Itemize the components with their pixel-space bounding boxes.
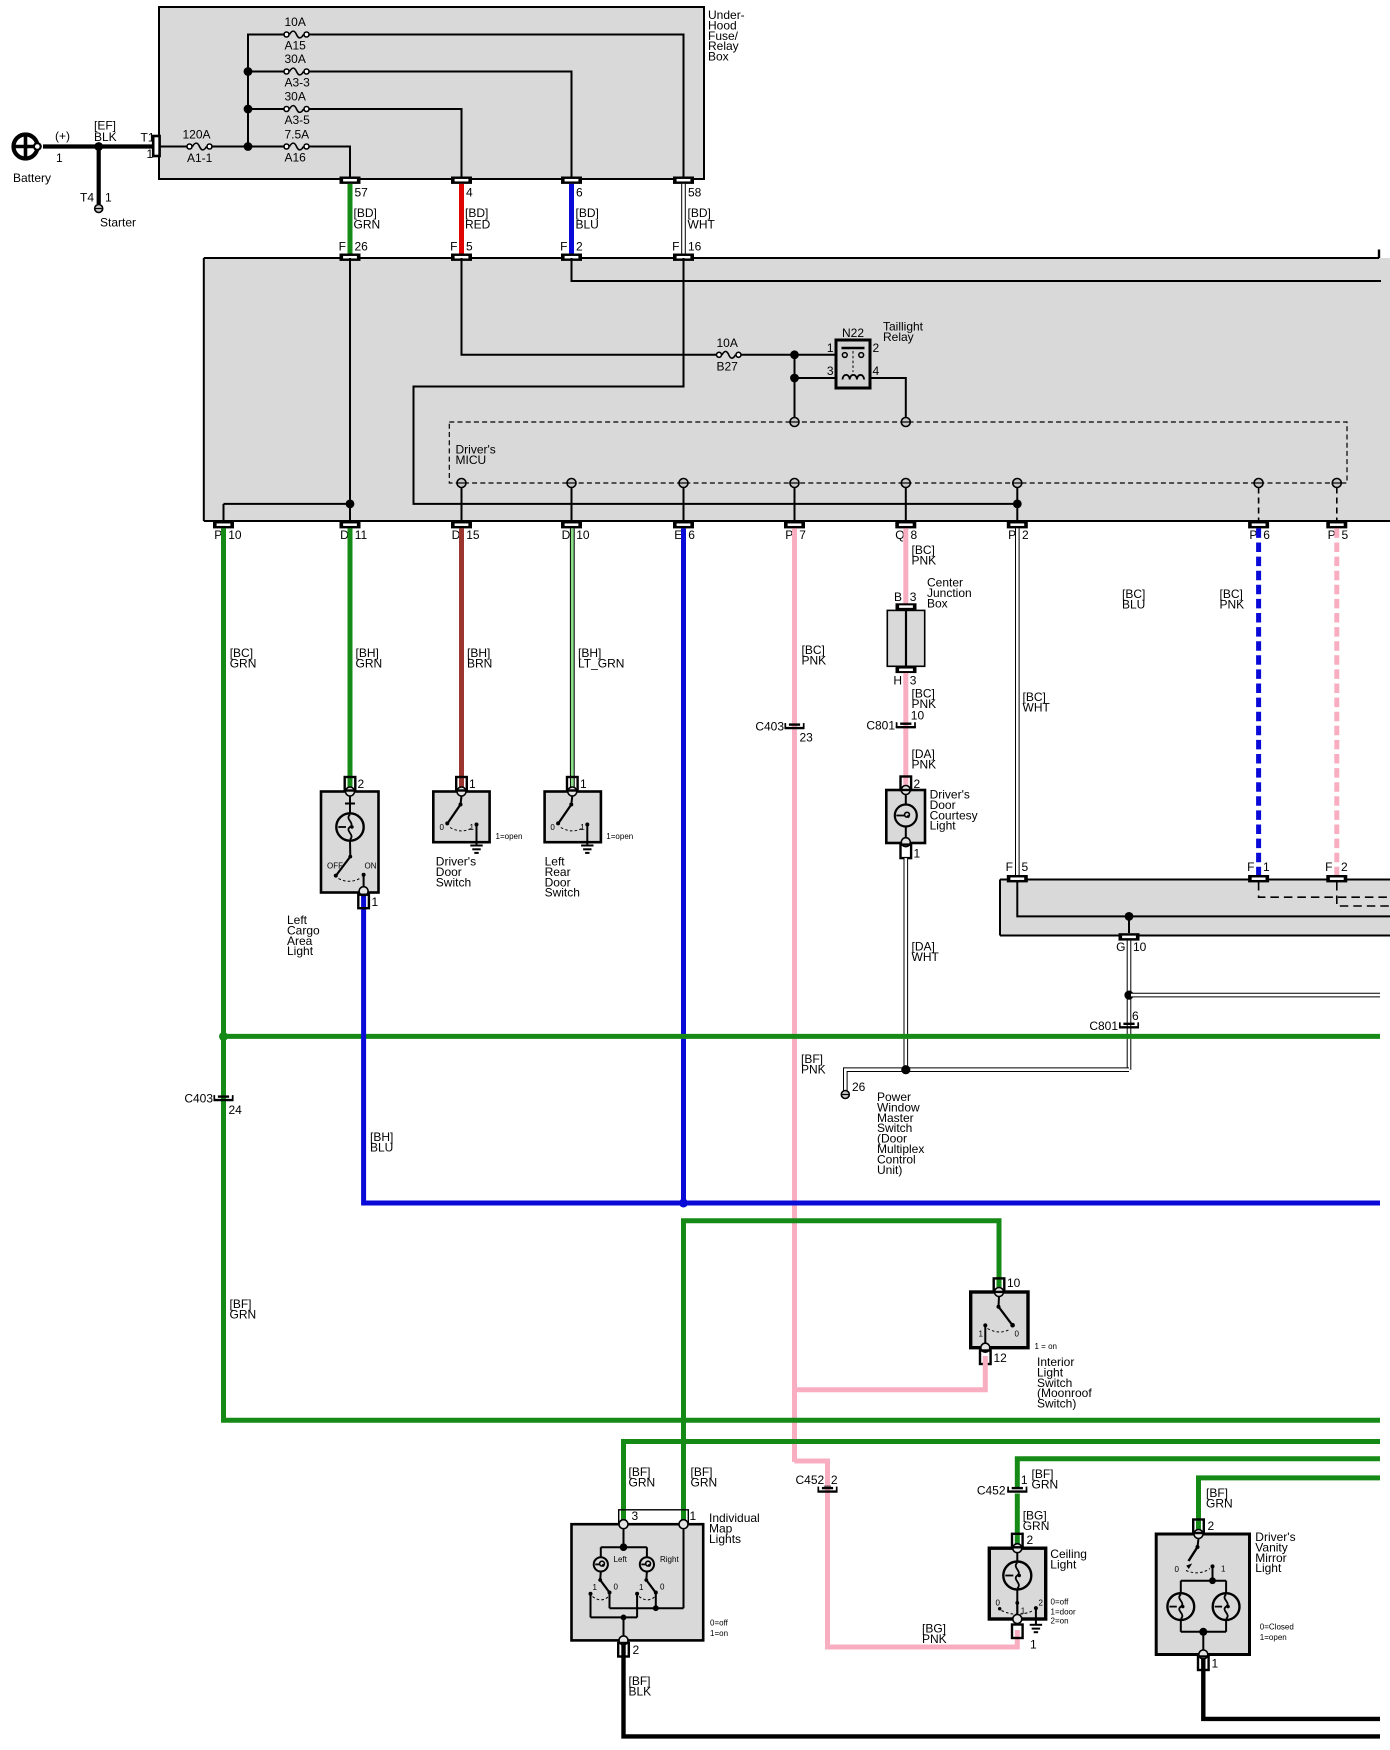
svg-text:D: D xyxy=(562,528,571,542)
wire [BF] GRN down-left xyxy=(224,1036,1381,1420)
wire F1 dashed inside box xyxy=(1259,882,1390,897)
connector pin 6 xyxy=(561,177,583,200)
wire [BH] BRN D15 to driver's door switch xyxy=(462,528,493,788)
label: [BG] PNK xyxy=(922,1622,947,1647)
svg-text:6: 6 xyxy=(688,528,695,542)
svg-text:C452: C452 xyxy=(977,1484,1006,1498)
wire branch to relay pin 3 and MICU xyxy=(795,355,837,418)
svg-text:1: 1 xyxy=(914,847,921,861)
svg-text:12: 12 xyxy=(994,1351,1008,1365)
svg-text:Battery: Battery xyxy=(13,171,51,185)
label: Driver's Door Courtesy Light xyxy=(930,788,978,833)
connector P5 xyxy=(1326,521,1348,542)
switch: left rear door switch xyxy=(545,787,601,846)
svg-text:1=open: 1=open xyxy=(1260,1633,1287,1642)
svg-text:BLK: BLK xyxy=(629,1685,652,1699)
svg-text:1: 1 xyxy=(105,191,112,205)
label: Driver's MICU xyxy=(456,443,496,468)
svg-text:A3-5: A3-5 xyxy=(285,113,311,127)
starter terminal T4 xyxy=(80,191,136,230)
svg-text:1: 1 xyxy=(593,1583,598,1592)
svg-text:(+): (+) xyxy=(55,129,70,143)
switch: driver's door switch xyxy=(433,787,489,846)
svg-text:Light: Light xyxy=(930,819,957,833)
svg-text:BLU: BLU xyxy=(576,218,599,232)
terminal 26 power window master switch xyxy=(841,1080,865,1099)
svg-text:1: 1 xyxy=(827,341,834,355)
svg-text:5: 5 xyxy=(1022,860,1029,874)
wire G10 down xyxy=(1127,941,1132,1070)
connector D10 xyxy=(561,521,590,542)
svg-text:B: B xyxy=(894,590,902,604)
node relay coil branch xyxy=(790,374,799,383)
svg-text:0: 0 xyxy=(660,1583,665,1592)
svg-text:RED: RED xyxy=(465,218,491,232)
wire B27 to relay pin 1 xyxy=(741,354,836,356)
node green bus junction xyxy=(219,1032,228,1041)
svg-text:1 = on: 1 = on xyxy=(1035,1342,1057,1351)
wire [BF] GRN bus to vanity mirror light xyxy=(1199,1478,1381,1531)
svg-text:1: 1 xyxy=(1263,860,1270,874)
svg-text:0: 0 xyxy=(440,823,445,832)
connector P7 xyxy=(784,521,806,542)
driver's under-dash fuse/relay box xyxy=(204,250,1390,522)
connector D15 xyxy=(451,521,480,542)
connector driver's door switch pin 1 xyxy=(456,777,476,791)
label: Individual Map Lights xyxy=(614,1511,760,1638)
wire [BG] GRN C452-1 to ceiling light pin 2 xyxy=(1017,1494,1049,1547)
connector F2 xyxy=(560,240,583,261)
wire [BC] BLU P6 to F1 (dashed) xyxy=(1122,528,1259,875)
wire relay pin 4 to MICU xyxy=(870,378,906,418)
svg-text:0: 0 xyxy=(550,823,555,832)
svg-text:F: F xyxy=(560,240,567,254)
svg-text:Box: Box xyxy=(927,596,948,610)
connector C403 pin 23 xyxy=(755,720,813,745)
svg-text:0: 0 xyxy=(614,1583,619,1592)
MICU terminal (relay coil) xyxy=(901,418,910,427)
svg-text:2: 2 xyxy=(633,1643,640,1657)
node blue bus junction xyxy=(679,1199,688,1208)
svg-text:24: 24 xyxy=(229,1103,243,1117)
svg-text:ON: ON xyxy=(365,862,377,871)
node white-wire branch xyxy=(1124,991,1133,1000)
wire to starter xyxy=(97,147,101,205)
connector cargo light pin 2 xyxy=(345,777,365,791)
fuse 10A A15 xyxy=(284,15,309,53)
node bus-A16 xyxy=(244,142,253,151)
svg-text:N22: N22 xyxy=(842,326,864,340)
connector G10 xyxy=(1116,933,1147,954)
wire [BC] PNK P5 to F2 (dashed) xyxy=(1220,528,1337,875)
connector E6 xyxy=(673,521,695,542)
svg-text:0=off: 0=off xyxy=(1051,1598,1070,1607)
node battery/starter junction xyxy=(94,142,103,151)
svg-text:1: 1 xyxy=(372,895,379,909)
svg-text:2: 2 xyxy=(1208,1519,1215,1533)
svg-text:Box: Box xyxy=(708,50,729,64)
wire to power window master switch xyxy=(845,1070,1129,1091)
wire F16 to P2 xyxy=(414,258,1018,504)
MICU terminal P2 xyxy=(1013,479,1022,522)
svg-text:10: 10 xyxy=(576,528,590,542)
connector C403 pin 24 xyxy=(184,1092,242,1118)
svg-text:C403: C403 xyxy=(755,720,784,734)
wire T1 to fuse A1-1 xyxy=(160,146,189,148)
svg-text:3: 3 xyxy=(910,590,917,604)
svg-text:F: F xyxy=(1247,860,1254,874)
svg-text:H: H xyxy=(893,674,902,688)
MICU terminal D10 xyxy=(567,479,576,522)
wire [BD] WHT 58 to F16 xyxy=(684,184,716,254)
wire [BH] BLU cargo light to blue bus xyxy=(364,892,1380,1204)
svg-text:2: 2 xyxy=(576,240,583,254)
svg-text:BLK: BLK xyxy=(94,130,117,144)
fuse 30A A3-5 xyxy=(284,90,310,128)
svg-text:6: 6 xyxy=(576,186,583,200)
svg-text:2: 2 xyxy=(914,777,921,791)
wire [BD] RED 4 to F5 xyxy=(462,184,491,254)
wire [BD] BLU 6 to F2 xyxy=(572,184,599,254)
label: Left Cargo Area Light xyxy=(287,913,320,958)
connector F1 (lower box) xyxy=(1247,860,1270,882)
connector D11 xyxy=(340,521,368,542)
svg-text:Unit): Unit) xyxy=(877,1163,902,1177)
connector P2 xyxy=(1007,521,1029,542)
connector left rear door switch pin 1 xyxy=(567,777,587,791)
svg-text:T4: T4 xyxy=(80,191,94,205)
svg-text:Switch: Switch xyxy=(436,875,471,889)
svg-text:10: 10 xyxy=(228,528,242,542)
svg-text:3: 3 xyxy=(827,364,834,378)
svg-text:BLU: BLU xyxy=(370,1141,393,1155)
svg-text:PNK: PNK xyxy=(922,1632,947,1646)
wire [BF] GRN bus to map lights pin 3 xyxy=(624,1442,1381,1522)
svg-text:F: F xyxy=(672,240,679,254)
svg-text:Switch: Switch xyxy=(545,886,580,900)
label: Ceiling Light xyxy=(1050,1547,1087,1626)
label: Driver's Vanity Mirror Light xyxy=(1255,1530,1295,1642)
svg-text:10: 10 xyxy=(911,709,925,723)
svg-text:P: P xyxy=(1008,528,1016,542)
dash fuse box (lower right) xyxy=(1000,880,1390,936)
wire [BC] WHT P2 to F5 xyxy=(1017,528,1050,875)
svg-text:LT_GRN: LT_GRN xyxy=(578,657,624,671)
svg-text:3: 3 xyxy=(632,1509,639,1523)
svg-text:1: 1 xyxy=(690,1509,697,1523)
MICU terminal (relay contact feed) xyxy=(790,418,799,427)
svg-text:2: 2 xyxy=(1039,1599,1044,1608)
svg-text:0: 0 xyxy=(996,1599,1001,1608)
svg-text:1: 1 xyxy=(469,777,476,791)
connector Q8 xyxy=(895,521,917,542)
svg-text:WHT: WHT xyxy=(688,218,716,232)
svg-text:Right: Right xyxy=(660,1555,679,1564)
svg-text:WHT: WHT xyxy=(912,950,940,964)
connector T1 pin 1 xyxy=(141,131,160,162)
svg-text:OFF: OFF xyxy=(327,862,343,871)
svg-text:A1-1: A1-1 xyxy=(187,151,213,165)
wire battery positive to T1 xyxy=(43,144,155,148)
svg-text:GRN: GRN xyxy=(354,218,381,232)
svg-text:5: 5 xyxy=(1342,528,1349,542)
wire [BF] PNK jog to C452 xyxy=(795,1455,1018,1647)
node F26-P10 junction xyxy=(346,500,355,509)
svg-text:26: 26 xyxy=(355,240,369,254)
wire [BF] GRN to map lights pin 3 label xyxy=(629,1465,718,1490)
MICU terminal E6 xyxy=(679,479,688,522)
svg-text:F: F xyxy=(1325,860,1332,874)
node P2 junction xyxy=(1013,500,1022,509)
svg-text:1=open: 1=open xyxy=(496,832,523,841)
node DA-WHT junction xyxy=(901,1065,910,1074)
svg-text:2=on: 2=on xyxy=(1051,1617,1069,1626)
svg-text:F: F xyxy=(450,240,457,254)
wire [BD] GRN 57 to F26 xyxy=(350,184,380,254)
bus branch vertical xyxy=(248,35,285,147)
wire [BF] GRN map lights pin1 / interior switch xyxy=(684,1221,1000,1521)
label: Interior Light Switch (Moonroof Switch) xyxy=(1037,1355,1092,1411)
ground at driver's door switch xyxy=(470,846,482,853)
connector courtesy light pin 1 xyxy=(901,845,921,861)
lamp: driver's vanity mirror light xyxy=(1156,1530,1249,1660)
svg-text:58: 58 xyxy=(688,186,702,200)
svg-text:Relay: Relay xyxy=(883,330,914,344)
connector cargo light pin 1 xyxy=(358,895,378,909)
svg-text:1: 1 xyxy=(1212,1657,1219,1671)
svg-text:1: 1 xyxy=(1021,1607,1026,1616)
svg-text:30A: 30A xyxy=(285,52,306,66)
wire [BF] BLK map lights ground xyxy=(624,1642,1381,1736)
wire [BH] GRN D11 to cargo light xyxy=(350,528,382,788)
svg-text:2: 2 xyxy=(1341,860,1348,874)
svg-text:C801: C801 xyxy=(866,719,895,733)
svg-text:10A: 10A xyxy=(285,15,306,29)
svg-text:6: 6 xyxy=(1132,1009,1139,1023)
wire A3-3 to output 6 xyxy=(309,72,572,177)
connector pin 57 xyxy=(340,177,369,200)
connector P10 xyxy=(213,521,242,542)
connector interior switch pin 10 xyxy=(994,1276,1021,1292)
wire F2 dashed inside box xyxy=(1337,882,1390,906)
svg-text:GRN: GRN xyxy=(1023,1519,1050,1533)
svg-text:7: 7 xyxy=(799,528,806,542)
MICU terminal D15 xyxy=(457,479,466,522)
svg-text:1: 1 xyxy=(470,823,475,832)
lamp: individual map lights xyxy=(572,1509,704,1645)
svg-text:1: 1 xyxy=(580,823,585,832)
label: [EF] BLK xyxy=(94,119,117,145)
svg-text:WHT: WHT xyxy=(1023,701,1051,715)
MICU terminal P6 xyxy=(1254,479,1263,522)
svg-text:T1: T1 xyxy=(141,131,155,145)
fuse 10A B27 xyxy=(717,336,742,374)
svg-text:MICU: MICU xyxy=(456,453,487,467)
svg-text:2: 2 xyxy=(1022,528,1029,542)
connector F5 xyxy=(450,240,473,261)
connector C452 pin 1 xyxy=(977,1473,1028,1498)
svg-text:GRN: GRN xyxy=(356,657,383,671)
label: Center Junction Box xyxy=(927,576,972,611)
svg-text:1: 1 xyxy=(147,147,154,161)
wire F2 to box edge xyxy=(572,258,1382,281)
driver's MICU xyxy=(449,422,1347,483)
svg-text:11: 11 xyxy=(355,528,368,542)
MICU terminal P7 xyxy=(790,479,799,522)
ground at ceiling light xyxy=(1030,1619,1042,1632)
svg-text:F: F xyxy=(339,240,346,254)
connector P6 xyxy=(1248,521,1270,542)
svg-text:30A: 30A xyxy=(285,90,306,104)
svg-text:Q: Q xyxy=(895,528,904,542)
svg-text:0: 0 xyxy=(1175,1565,1180,1574)
connector courtesy light pin 2 xyxy=(901,777,921,792)
wire white branch to right edge xyxy=(1131,993,1380,998)
svg-text:PNK: PNK xyxy=(802,654,827,668)
connector vanity light pin 2 xyxy=(1193,1519,1214,1533)
lamp: left cargo area light xyxy=(321,787,379,896)
svg-text:0: 0 xyxy=(1015,1330,1020,1339)
wire A15 to output 58 xyxy=(309,35,684,177)
svg-text:B27: B27 xyxy=(717,360,739,374)
svg-text:2: 2 xyxy=(873,341,880,355)
svg-text:Light: Light xyxy=(287,944,314,958)
wire E6 blue down xyxy=(681,528,686,1203)
node bus-A3-5 xyxy=(244,105,253,114)
svg-text:23: 23 xyxy=(800,731,814,745)
wire F26 to D11/P10 xyxy=(224,258,351,521)
connector C801 pin 10 xyxy=(866,709,924,733)
svg-text:120A: 120A xyxy=(183,128,211,142)
svg-text:1: 1 xyxy=(56,151,63,165)
svg-text:Light: Light xyxy=(1050,1558,1077,1572)
ground at left rear door switch xyxy=(581,846,593,853)
wire A3-5 to output 4 xyxy=(309,109,462,177)
MICU terminal P5 xyxy=(1332,479,1341,522)
svg-text:0=off: 0=off xyxy=(710,1619,729,1628)
wire [BF] PNK to interior switch pin 12 xyxy=(795,1356,986,1390)
label: [BF] PNK xyxy=(801,1052,826,1077)
connector ceiling light pin 1 xyxy=(1012,1625,1037,1652)
svg-text:A3-3: A3-3 xyxy=(285,76,311,90)
svg-text:1: 1 xyxy=(580,777,587,791)
wire F5 to G10 inside box xyxy=(1017,882,1390,916)
label: Power Window Master Switch (Door Multiplex Control Unit) xyxy=(877,1090,924,1177)
lamp: ceiling light xyxy=(989,1544,1045,1624)
fuse 120A A1-1 xyxy=(183,128,213,166)
svg-text:57: 57 xyxy=(355,186,369,200)
node B27 branch xyxy=(790,350,799,359)
svg-text:GRN: GRN xyxy=(629,1476,656,1490)
label: [BF] GRN at C452 xyxy=(1032,1467,1059,1492)
svg-text:4: 4 xyxy=(466,186,473,200)
svg-text:1=open: 1=open xyxy=(606,832,633,841)
connector F16 xyxy=(672,240,702,261)
svg-text:26: 26 xyxy=(852,1080,866,1094)
connector F2 (lower box) xyxy=(1325,860,1348,882)
svg-text:Switch): Switch) xyxy=(1037,1397,1076,1411)
wire [BC] PNK H3 to C801 xyxy=(906,673,936,789)
battery xyxy=(13,129,70,185)
svg-text:7.5A: 7.5A xyxy=(285,128,310,142)
svg-text:2: 2 xyxy=(1027,1533,1034,1547)
svg-text:0=Closed: 0=Closed xyxy=(1260,1623,1294,1632)
connector pin 58 xyxy=(673,177,702,200)
svg-text:GRN: GRN xyxy=(1206,1497,1233,1511)
connector C452 pin 2 xyxy=(796,1473,838,1492)
wire F5 to fuse B27 xyxy=(462,258,718,355)
wire [DA] WHT courtesy light to master switch net xyxy=(906,858,940,1070)
svg-text:1: 1 xyxy=(979,1330,984,1339)
svg-text:C801: C801 xyxy=(1089,1019,1118,1033)
wire [BF] GRN bus to ceiling light xyxy=(1017,1459,1380,1487)
fuse 30A A3-3 xyxy=(284,52,310,90)
wire [BC] PNK P7 down xyxy=(795,528,827,1461)
label: Left Rear Door Switch xyxy=(545,832,634,900)
svg-text:GRN: GRN xyxy=(1032,1478,1059,1492)
svg-text:10: 10 xyxy=(1007,1276,1021,1290)
svg-text:4: 4 xyxy=(873,364,880,378)
wire A1-1 to branch node xyxy=(212,146,248,148)
svg-text:1: 1 xyxy=(639,1583,644,1592)
connector ceiling light pin 2 xyxy=(1012,1533,1034,1547)
wire [BF] GRN horizontal bus xyxy=(224,1034,1381,1039)
svg-text:A16: A16 xyxy=(285,151,307,165)
connector H3 xyxy=(893,667,916,688)
node G10 junction xyxy=(1125,912,1134,921)
svg-text:GRN: GRN xyxy=(691,1476,718,1490)
node bus-A3-3 xyxy=(244,67,253,76)
svg-text:1: 1 xyxy=(1021,1473,1028,1487)
svg-text:G: G xyxy=(1116,940,1125,954)
wire vanity light ground xyxy=(1203,1658,1380,1719)
label: Taillight Relay xyxy=(883,320,924,345)
svg-text:10A: 10A xyxy=(717,336,738,350)
wire [BC] PNK Q8 to center junction box xyxy=(906,528,936,605)
wire [BC] GRN P10 down xyxy=(224,528,257,1036)
connector interior switch pin 12 xyxy=(980,1351,1007,1366)
wire [BH] LT_GRN D10 to left rear door switch xyxy=(572,528,624,788)
svg-text:2: 2 xyxy=(358,777,365,791)
svg-text:F: F xyxy=(1006,860,1013,874)
svg-text:16: 16 xyxy=(688,240,702,254)
wire A16 to output 57 xyxy=(309,147,350,177)
label: [DA] PNK xyxy=(912,747,937,772)
svg-text:PNK: PNK xyxy=(1220,598,1245,612)
svg-text:Left: Left xyxy=(614,1555,628,1564)
under-hood fuse/relay box xyxy=(159,7,704,179)
svg-text:PNK: PNK xyxy=(912,758,937,772)
connector F5 (lower box) xyxy=(1006,860,1029,882)
label: Driver's Door Switch xyxy=(436,832,523,890)
svg-text:Light: Light xyxy=(1255,1561,1282,1575)
MICU terminal Q8 xyxy=(901,479,910,522)
svg-text:5: 5 xyxy=(466,240,473,254)
svg-text:8: 8 xyxy=(911,528,918,542)
svg-text:Lights: Lights xyxy=(709,1532,741,1546)
svg-text:1: 1 xyxy=(1221,1565,1226,1574)
label: Under-Hood Fuse/Relay Box xyxy=(708,8,745,64)
svg-text:Starter: Starter xyxy=(100,216,136,230)
connector vanity light pin 1 xyxy=(1198,1657,1219,1671)
svg-text:1: 1 xyxy=(1030,1638,1037,1652)
svg-text:C403: C403 xyxy=(184,1092,213,1106)
svg-text:BLU: BLU xyxy=(1122,598,1145,612)
svg-text:1=door: 1=door xyxy=(1051,1608,1076,1617)
svg-text:GRN: GRN xyxy=(230,657,257,671)
switch: interior light switch (moonroof switch) xyxy=(971,1288,1028,1353)
svg-text:15: 15 xyxy=(466,528,480,542)
